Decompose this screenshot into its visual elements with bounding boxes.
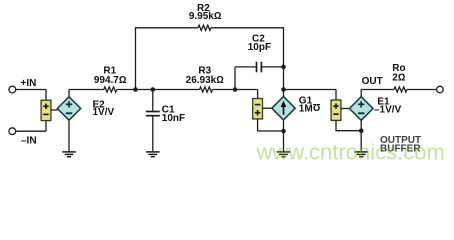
svg-text:+IN: +IN: [21, 78, 37, 89]
svg-text:OUT: OUT: [362, 76, 383, 87]
svg-text:–IN: –IN: [21, 136, 37, 147]
svg-text:26.93kΩ: 26.93kΩ: [186, 75, 225, 86]
svg-text:www.cntronics.com: www.cntronics.com: [256, 140, 445, 165]
svg-text:–1V/V: –1V/V: [374, 104, 402, 115]
svg-text:994.7Ω: 994.7Ω: [94, 75, 127, 86]
svg-text:10pF: 10pF: [248, 42, 271, 53]
svg-text:1V/V: 1V/V: [93, 107, 115, 118]
svg-text:1M: 1M: [299, 103, 313, 114]
svg-text:Ω: Ω: [312, 101, 320, 112]
svg-text:2Ω: 2Ω: [392, 72, 406, 83]
svg-text:10nF: 10nF: [162, 113, 185, 124]
svg-text:9.95kΩ: 9.95kΩ: [189, 11, 222, 22]
